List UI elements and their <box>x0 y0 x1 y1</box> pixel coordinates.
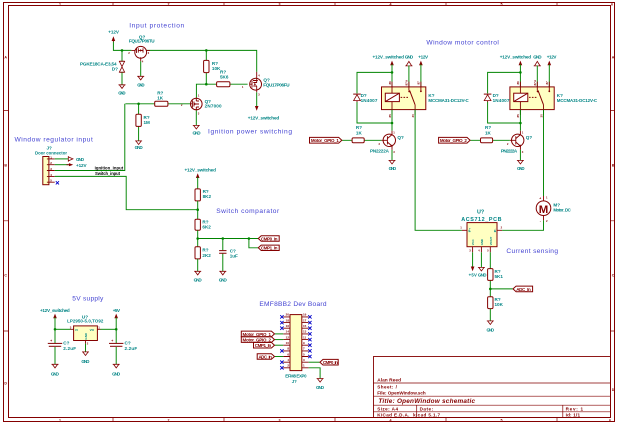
svg-text:85: 85 <box>388 114 392 118</box>
wire pin1 to GND <box>309 368 321 379</box>
svg-text:2: 2 <box>501 226 503 230</box>
svg-text:1N4007: 1N4007 <box>361 98 378 103</box>
svg-text:6: 6 <box>287 352 289 356</box>
svg-text:4: 4 <box>390 2 392 6</box>
svg-text:A: A <box>4 55 7 59</box>
svg-text:5: 5 <box>487 249 489 253</box>
svg-text:16: 16 <box>286 324 290 328</box>
svg-text:5: 5 <box>501 418 503 422</box>
ground (C output) <box>112 364 121 376</box>
power flag +12V <box>108 30 120 42</box>
global label ADC_In (pin6) <box>257 354 283 360</box>
svg-text:1N4007: 1N4007 <box>493 98 510 103</box>
resistor R? 5K1 (vertical) <box>488 252 504 296</box>
svg-text:GND: GND <box>478 273 487 278</box>
svg-text:GND: GND <box>112 371 121 376</box>
svg-text:CMP1_In: CMP1_In <box>261 246 278 251</box>
power input GND (right arrow) <box>68 156 84 162</box>
svg-text:2: 2 <box>379 142 381 146</box>
resistor R? 2K2 (vertical) <box>195 247 211 272</box>
svg-text:M: M <box>539 204 549 216</box>
ground (ACS, down arrow) <box>478 252 487 277</box>
ground (Q2) <box>193 125 202 135</box>
diode D? 1N4007 (relay1 flyback) <box>353 72 392 123</box>
svg-text:3: 3 <box>303 358 305 362</box>
svg-text:1K: 1K <box>485 131 492 136</box>
svg-text:11: 11 <box>303 335 307 339</box>
svg-text:2: 2 <box>168 418 170 422</box>
ground (Q left) <box>389 160 397 171</box>
relay K? MCCMA31-DC12V-C (right) <box>510 79 598 117</box>
svg-text:+12V: +12V <box>547 55 558 60</box>
svg-text:A: A <box>612 55 615 59</box>
svg-text:1: 1 <box>460 226 462 230</box>
svg-text:+5V: +5V <box>113 308 121 313</box>
svg-text:Id: 1/1: Id: 1/1 <box>566 413 581 418</box>
resistor R? 10K (vertical, lower) <box>488 297 504 321</box>
svg-text:EFM8 EXP0: EFM8 EXP0 <box>285 374 307 379</box>
svg-text:GND: GND <box>135 145 144 150</box>
motor M? Motor_DC <box>536 196 571 223</box>
svg-text:Alan Reed: Alan Reed <box>377 378 401 384</box>
section titles <box>15 23 559 308</box>
diode D? 1N4007 (relay2 flyback) <box>484 72 521 123</box>
ground (Q1 gate) <box>137 76 145 87</box>
svg-text:2: 2 <box>546 219 548 223</box>
wire Switch_input <box>55 176 198 209</box>
svg-text:FQU17P06FU: FQU17P06FU <box>263 83 290 88</box>
svg-text:VO: VO <box>90 328 95 332</box>
svg-text:1K: 1K <box>157 95 164 100</box>
svg-text:30: 30 <box>411 114 415 118</box>
svg-text:1: 1 <box>59 418 61 422</box>
npn transistor Q? PN2222A (right) <box>501 130 532 154</box>
svg-text:87A: 87A <box>533 79 537 85</box>
svg-text:+5V: +5V <box>469 273 477 278</box>
svg-text:Motor_GPIO_2: Motor_GPIO_2 <box>243 338 272 343</box>
svg-text:GND: GND <box>137 82 145 87</box>
wire vin to U? <box>55 328 71 330</box>
svg-text:1: 1 <box>303 364 305 368</box>
global label CMP1_In (pin10) <box>254 342 284 348</box>
wire to CMP labels <box>198 239 258 248</box>
no-connect marks left <box>280 315 283 369</box>
svg-text:5K6: 5K6 <box>220 75 229 80</box>
ground (C1uF) <box>219 271 228 282</box>
svg-text:3: 3 <box>258 93 260 97</box>
svg-text:+12V: +12V <box>108 30 120 35</box>
resistor R? 5K6 (horizontal) <box>206 70 247 87</box>
svg-text:GND: GND <box>517 166 525 171</box>
p-mosfet Q? FQU17P06FU (vertical) <box>242 72 290 97</box>
svg-text:6: 6 <box>611 2 613 6</box>
svg-text:PN2222A: PN2222A <box>501 149 518 154</box>
svg-text:87: 87 <box>545 81 549 85</box>
svg-text:ACS712_PCB: ACS712_PCB <box>461 217 501 223</box>
n-mosfet Q? 2N7000 <box>181 94 222 116</box>
svg-text:CMP0_In: CMP0_In <box>323 360 338 365</box>
junction node relay1 coil+ <box>391 71 394 74</box>
svg-text:D: D <box>4 381 7 385</box>
wire pin2 to +12V arrow <box>55 164 69 166</box>
svg-text:1uF: 1uF <box>230 253 238 258</box>
ground (Q right) <box>517 160 525 171</box>
svg-text:Title: OpenWindow schematic: Title: OpenWindow schematic <box>378 398 475 405</box>
capacitor C? 1uF <box>219 239 238 272</box>
svg-text:+12V_switched: +12V_switched <box>40 308 70 313</box>
svg-text:LP2950-5.0,TO92: LP2950-5.0,TO92 <box>67 319 104 324</box>
svg-text:Q?: Q? <box>526 135 533 140</box>
svg-text:+12V_switched: +12V_switched <box>500 55 532 60</box>
wire Ignition_input <box>55 104 125 171</box>
svg-text:1K: 1K <box>356 131 363 136</box>
power flag +12V_switched <box>185 168 217 189</box>
svg-text:4: 4 <box>142 60 144 64</box>
svg-text:3: 3 <box>522 150 524 154</box>
svg-text:GND: GND <box>480 239 484 245</box>
svg-text:5: 5 <box>501 2 503 6</box>
svg-text:15: 15 <box>303 324 307 328</box>
ground (pin1) <box>316 379 325 390</box>
ground (R10K) <box>487 321 495 332</box>
resistor R? 6K2 (vertical) <box>195 219 211 247</box>
svg-text:Switch comparator: Switch comparator <box>216 208 280 215</box>
svg-text:1: 1 <box>546 196 548 200</box>
svg-text:VI: VI <box>75 328 78 332</box>
svg-text:VIOUT: VIOUT <box>489 236 493 245</box>
wire Q1 gate to GND <box>140 61 142 76</box>
wire emitter to GND <box>519 150 521 161</box>
svg-text:14: 14 <box>286 330 290 334</box>
wire junction to Q2 drain <box>196 84 206 97</box>
ground (D1) <box>118 85 126 96</box>
svg-text:Input protection: Input protection <box>129 23 184 30</box>
power flag +12V_switched (down) <box>248 106 280 120</box>
svg-text:5V supply: 5V supply <box>72 295 104 302</box>
svg-text:1: 1 <box>198 94 200 98</box>
junction node ADC <box>489 288 492 291</box>
wire motor to ACS pin2 <box>502 220 543 230</box>
svg-text:3: 3 <box>279 2 281 6</box>
svg-text:1: 1 <box>393 130 395 134</box>
power flag GND (relay2 87A) <box>533 55 542 87</box>
svg-text:GND: GND <box>219 278 228 283</box>
svg-text:C?: C? <box>125 340 131 345</box>
global label CMP0_In <box>258 236 279 242</box>
junction node relay2 coil- <box>519 122 522 125</box>
regulator U? LP2950-5.0,TO92 <box>67 315 104 346</box>
svg-text:Window motor control: Window motor control <box>426 39 499 46</box>
svg-text:17: 17 <box>303 318 307 322</box>
svg-text:File: OpenWindow.sch: File: OpenWindow.sch <box>377 390 426 395</box>
svg-text:CMP1_In: CMP1_In <box>255 343 272 348</box>
svg-text:2.2uF: 2.2uF <box>125 346 138 351</box>
capacitor C? 2.2uF (output) <box>109 329 137 364</box>
power input +12V (right arrow) <box>67 163 88 168</box>
svg-text:+12V: +12V <box>76 163 88 168</box>
svg-text:R?: R? <box>202 247 208 252</box>
junction node vout <box>115 328 118 331</box>
svg-text:10: 10 <box>286 341 290 345</box>
svg-text:GND: GND <box>81 359 90 364</box>
svg-text:GND: GND <box>316 385 325 390</box>
svg-text:1: 1 <box>522 130 524 134</box>
svg-text:4: 4 <box>258 74 260 78</box>
wire coil- to Q collector <box>391 110 393 131</box>
svg-text:+: + <box>539 196 541 200</box>
svg-text:MCCMA31-DC12V-C: MCCMA31-DC12V-C <box>557 98 598 103</box>
svg-text:19: 19 <box>303 313 307 317</box>
ground (C input) <box>51 364 60 376</box>
resistor R? 1M (vertical) <box>136 104 150 141</box>
svg-text:4: 4 <box>478 249 480 253</box>
svg-text:3: 3 <box>279 418 281 422</box>
svg-text:86: 86 <box>388 81 392 85</box>
svg-text:9: 9 <box>303 341 305 345</box>
svg-text:GND: GND <box>51 371 60 376</box>
svg-text:13: 13 <box>303 330 307 334</box>
svg-text:Size: A4: Size: A4 <box>377 407 398 412</box>
power flag +12V (relay1 87) <box>418 55 429 87</box>
svg-text:GND: GND <box>118 90 126 95</box>
svg-text:Sheet: /: Sheet: / <box>377 385 397 390</box>
svg-text:EMF8BB2 Dev Board: EMF8BB2 Dev Board <box>259 301 326 308</box>
svg-text:Window regulator input: Window regulator input <box>15 137 93 144</box>
svg-text:2: 2 <box>128 51 130 55</box>
svg-text:18: 18 <box>286 318 290 322</box>
svg-text:D: D <box>612 388 615 392</box>
junction node R10K/R5K6 <box>205 83 208 86</box>
svg-text:+12V_switched: +12V_switched <box>185 168 217 173</box>
svg-text:ADC_In: ADC_In <box>516 287 531 292</box>
relay K? MCCMA31-DC12V-C (left) <box>382 79 470 117</box>
no-connect pin5 <box>56 181 59 184</box>
svg-text:7: 7 <box>303 347 305 351</box>
svg-text:4: 4 <box>287 358 289 362</box>
global label Motor_GPIO_1 (pin14) <box>241 331 283 337</box>
wire +12V to Q1 <box>113 42 131 51</box>
power flag +12V_switched (relay1) <box>373 55 405 87</box>
svg-text:3: 3 <box>393 150 395 154</box>
op: p-mosfet Q? FQU17P06TU (horizontal) <box>128 34 155 63</box>
global label Motor_GPIO_2 (pin12) <box>241 337 283 343</box>
junction node relay2 coil+ <box>519 71 522 74</box>
svg-text:Switch_input: Switch_input <box>95 171 121 176</box>
junction node switch/divider <box>196 208 199 211</box>
svg-text:20: 20 <box>286 313 290 317</box>
svg-text:1: 1 <box>242 85 244 89</box>
svg-text:1: 1 <box>59 2 61 6</box>
svg-text:GND: GND <box>194 278 203 283</box>
svg-text:87A: 87A <box>405 79 409 85</box>
svg-text:GND: GND <box>405 55 414 60</box>
global label CMP0_In (pin3) <box>309 359 339 365</box>
svg-text:Ignition_input: Ignition_input <box>95 165 124 170</box>
wire pin1 to GND arrow <box>55 158 69 160</box>
wire D1 to GND <box>121 73 123 85</box>
svg-text:2.2uF: 2.2uF <box>63 346 76 351</box>
svg-text:2: 2 <box>168 2 170 6</box>
svg-text:5: 5 <box>303 352 305 356</box>
ground (U? pin2) <box>81 344 90 365</box>
junction node R10K top <box>205 49 208 52</box>
svg-text:3: 3 <box>148 51 150 55</box>
svg-text:8: 8 <box>287 347 289 351</box>
svg-text:Ignition power switching: Ignition power switching <box>208 128 292 135</box>
svg-text:Motor_DC: Motor_DC <box>553 208 571 213</box>
svg-text:GND: GND <box>389 166 397 171</box>
svg-text:B: B <box>612 163 615 167</box>
svg-text:-: - <box>540 219 541 223</box>
svg-text:GND: GND <box>193 130 202 135</box>
svg-text:C?: C? <box>63 340 69 345</box>
title block <box>373 357 611 418</box>
wire Q2 source to GND <box>195 111 197 126</box>
svg-text:12: 12 <box>286 335 290 339</box>
svg-text:C: C <box>612 273 615 277</box>
global label CMP1_In <box>258 245 279 251</box>
svg-text:2K2: 2K2 <box>202 253 211 258</box>
wire relay1 pin30 to ACS pin1 <box>415 110 462 231</box>
svg-text:2: 2 <box>87 342 89 346</box>
ground (R1M) <box>135 141 144 150</box>
svg-text:6K2: 6K2 <box>202 225 211 230</box>
svg-text:8K2: 8K2 <box>203 194 212 199</box>
svg-text:GND: GND <box>76 157 85 162</box>
resistor R? 1K (gate of Q2) <box>125 91 190 107</box>
svg-text:3: 3 <box>469 249 471 253</box>
connector J? EFM8 EXP0 <box>283 313 308 384</box>
svg-text:ADC_In: ADC_In <box>259 355 273 360</box>
svg-text:3: 3 <box>70 325 72 329</box>
tvs diode D? PGKE18CA-E3,54 <box>80 50 125 72</box>
svg-text:85: 85 <box>516 114 520 118</box>
svg-text:IP+: IP+ <box>467 228 471 233</box>
resistor R? 10K (vertical) <box>204 50 221 84</box>
svg-text:Q?: Q? <box>397 135 404 140</box>
svg-text:Motor_GPIO_1: Motor_GPIO_1 <box>311 138 339 143</box>
svg-text:GND: GND <box>84 332 88 340</box>
svg-text:2N7000: 2N7000 <box>205 104 222 109</box>
resistor R? 1K (base, right) <box>470 125 509 143</box>
capacitor C? 2.2uF (input) <box>48 329 76 364</box>
svg-text:3: 3 <box>198 112 200 116</box>
global label Motor_GPIO_1 (relay1) <box>310 137 342 143</box>
svg-text:1M: 1M <box>144 120 151 125</box>
svg-text:R?: R? <box>356 125 362 130</box>
svg-text:Motor_GPIO_1: Motor_GPIO_1 <box>243 332 272 337</box>
svg-text:Motor_GPIO_2: Motor_GPIO_2 <box>440 138 467 143</box>
junction node R1K/R1M <box>137 103 140 106</box>
global label ADC_In <box>513 286 533 292</box>
svg-text:30: 30 <box>539 114 543 118</box>
svg-text:2: 2 <box>507 142 509 146</box>
power flag +12V_switched (relay2) <box>500 55 532 87</box>
svg-text:MCCMA31-DC12V-C: MCCMA31-DC12V-C <box>428 98 469 103</box>
svg-text:KiCad E.D.A. kicad 5.1.7: KiCad E.D.A. kicad 5.1.7 <box>377 413 440 418</box>
svg-text:C: C <box>4 273 7 277</box>
power flag GND (relay1 87A) <box>405 55 414 87</box>
svg-text:+: + <box>111 339 113 343</box>
svg-text:GND: GND <box>487 327 495 332</box>
svg-text:2: 2 <box>287 364 289 368</box>
wire vout <box>101 328 117 330</box>
svg-text:86: 86 <box>516 81 520 85</box>
junction node comparator out <box>196 237 199 240</box>
svg-text:R?: R? <box>485 125 491 130</box>
sensor U? ACS712_PCB <box>460 209 502 252</box>
power flag +5V <box>113 308 121 329</box>
svg-text:IP-: IP- <box>493 229 497 233</box>
svg-text:D?: D? <box>112 66 118 71</box>
svg-text:GND: GND <box>533 55 542 60</box>
svg-text:10K: 10K <box>495 302 504 307</box>
svg-text:PN2222A: PN2222A <box>370 149 390 154</box>
svg-text:B: B <box>4 163 7 167</box>
resistor R? 1K (base, left) <box>342 125 381 143</box>
junction node vin <box>54 328 57 331</box>
junction node +12V/D1 <box>121 49 124 52</box>
no-connect marks right <box>308 315 311 358</box>
wire emitter to GND <box>391 150 393 161</box>
svg-text:CMP0_In: CMP0_In <box>261 236 278 241</box>
svg-text:+12V_switched: +12V_switched <box>248 115 280 120</box>
wire Q1 drain to Q3 <box>146 50 257 72</box>
npn transistor Q? PN2222A (left) <box>370 130 404 154</box>
wire to ADC_In label <box>490 288 513 290</box>
svg-text:+12V: +12V <box>418 55 429 60</box>
power flag +5V (down, ACS) <box>469 252 477 277</box>
power flag +12V_switched <box>40 308 70 329</box>
ground (R2K2) <box>194 271 203 282</box>
svg-text:VCC: VCC <box>471 239 475 245</box>
svg-text:FQU17P06TU: FQU17P06TU <box>129 39 155 44</box>
wire relay2 pin30 to motor <box>543 110 545 196</box>
svg-text:4: 4 <box>390 418 392 422</box>
svg-text:6: 6 <box>609 418 611 422</box>
resistor R? 8K2 (vertical) <box>195 189 211 219</box>
svg-text:Current sensing: Current sensing <box>506 248 558 255</box>
svg-text:U?: U? <box>477 209 484 215</box>
svg-text:J?: J? <box>292 379 297 384</box>
svg-text:1: 1 <box>98 325 100 329</box>
wire coil- to Q collector <box>519 110 521 131</box>
svg-text:87: 87 <box>417 81 421 85</box>
power flag +12V (relay2 87) <box>547 55 558 87</box>
svg-text:+: + <box>50 339 52 343</box>
svg-text:Date:: Date: <box>420 407 434 412</box>
junction node relay1 coil- <box>391 122 394 125</box>
svg-text:+12V_switched: +12V_switched <box>373 55 405 60</box>
svg-text:5K1: 5K1 <box>495 274 504 279</box>
connector J? Door connector <box>35 145 67 184</box>
wire Q3 source down <box>256 92 258 106</box>
global label Motor_GPIO_2 (relay2) <box>439 137 471 143</box>
svg-text:Rev: 1: Rev: 1 <box>566 407 584 412</box>
